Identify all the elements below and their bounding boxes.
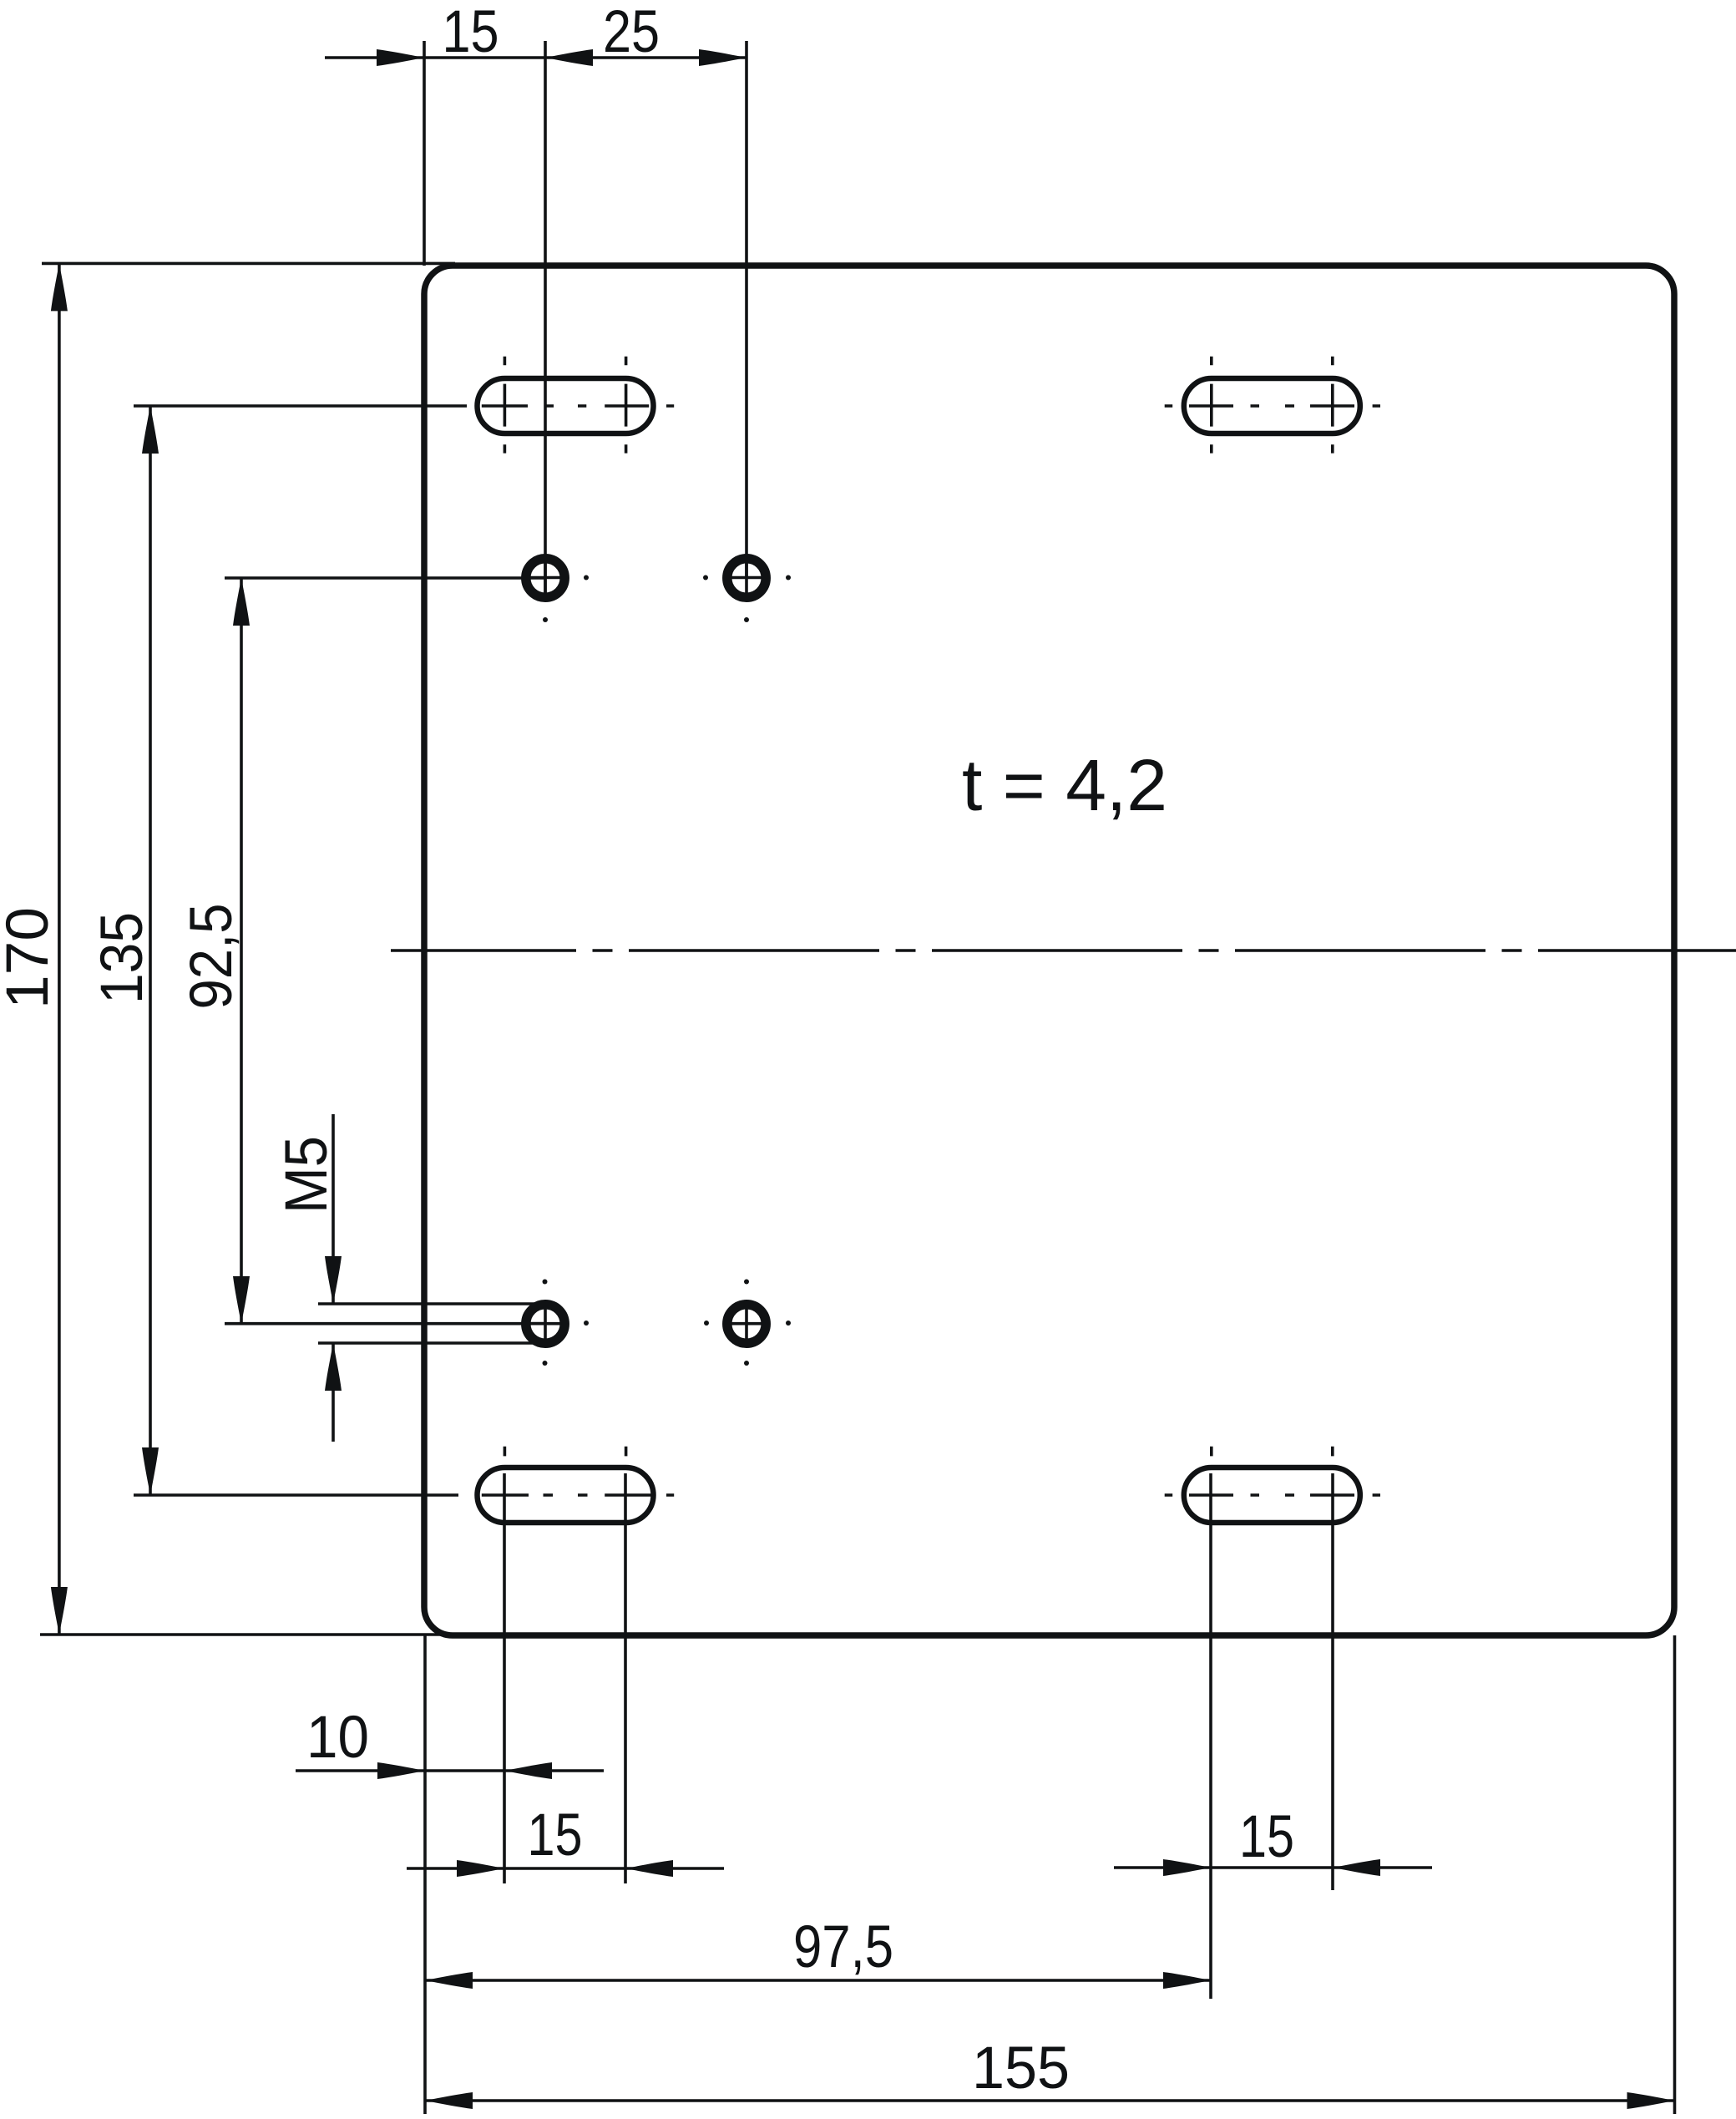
slot top-right: [1184, 378, 1360, 433]
dimension 15 top: extension lines: [424, 41, 545, 601]
svg-text:135: 135: [89, 912, 155, 1004]
hole M5 upper-right: [727, 559, 766, 597]
slot top-left: [478, 378, 654, 433]
dimension 155: dimension line with arrows: [425, 2092, 1675, 2109]
hole M5 upper-right center dots: [703, 575, 791, 623]
dimension M5: dimension lines with arrows: [325, 1114, 342, 1442]
svg-text:M5: M5: [274, 1136, 340, 1214]
dimension 135: dimension line with arrows: [142, 406, 159, 1495]
slot bottom-left center marks: [482, 1447, 674, 1495]
svg-text:15: 15: [443, 0, 499, 65]
dimension 135: leaders: [134, 406, 467, 1495]
dimension 92,5: dimension line with arrows: [233, 578, 250, 1324]
dimension 15 bottom-left: dimension line with arrows: [407, 1860, 724, 1877]
slot bottom-right: [1184, 1468, 1360, 1523]
plate outline: [424, 266, 1674, 1635]
dimension 170: leaders: [40, 263, 455, 1635]
svg-text:97,5: 97,5: [793, 1914, 893, 1980]
svg-text:25: 25: [603, 0, 660, 65]
slot top-right center marks: [1165, 357, 1380, 454]
hole M5 upper-left: [526, 559, 564, 597]
hole M5 lower-right: [727, 1305, 766, 1343]
dimension 92,5: leaders: [225, 578, 545, 1324]
main horizontal centerline: [391, 949, 1736, 952]
hole M5 upper-left center dots: [543, 575, 589, 623]
hole M5 lower-left center dots: [543, 1280, 590, 1366]
slot top-left center marks: [482, 357, 674, 454]
dimension 25 top: extension line right: [745, 41, 748, 577]
dimension 97,5: dimension line with arrows: [425, 1972, 1211, 1989]
svg-text:10: 10: [306, 1705, 369, 1771]
svg-text:15: 15: [528, 1802, 583, 1868]
slot bottom-right center marks: [1165, 1447, 1380, 1495]
slot bottom-left: [478, 1468, 654, 1523]
svg-text:155: 155: [972, 2035, 1070, 2101]
hole M5 lower-left: [526, 1305, 564, 1343]
hole M5 lower-right center dots: [704, 1280, 791, 1366]
svg-text:15: 15: [1239, 1804, 1294, 1870]
dimension 170: dimension line with arrows: [51, 263, 68, 1635]
dimension 15/25 top: dimension line: [325, 49, 747, 66]
dimension 10 bottom: dimension line with arrows: [296, 1762, 604, 1779]
svg-text:t = 4,2: t = 4,2: [962, 745, 1167, 826]
svg-text:170: 170: [0, 907, 61, 1009]
bottom extension lines: [425, 1473, 1675, 2114]
dimension 15 bottom-right: dimension line with arrows: [1114, 1859, 1432, 1876]
svg-text:92,5: 92,5: [179, 904, 245, 1010]
dimension M5: extension lines: [318, 1304, 552, 1343]
